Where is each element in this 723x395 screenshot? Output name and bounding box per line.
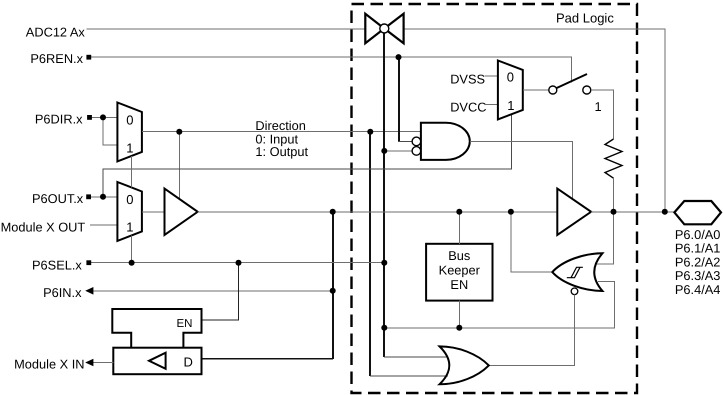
svg-text:EN: EN [450, 277, 468, 292]
wire DVSS input [484, 75, 498, 77]
svg-text:P6.4/A4: P6.4/A4 [675, 282, 721, 297]
OR gate U6 [440, 346, 489, 384]
svg-text:0: 0 [126, 192, 133, 207]
node Direction chain [367, 129, 373, 135]
analog switch control circle [380, 24, 389, 33]
wire switch to resistor [591, 90, 614, 139]
node bus keeper top [456, 209, 462, 215]
svg-text:1: 1 [126, 220, 133, 235]
wire schmitt top input from pad line [597, 212, 614, 264]
node bus keeper bottom [456, 325, 462, 331]
wire OR gate output to schmitt enable [489, 294, 575, 365]
node schmitt output [508, 209, 514, 215]
wire mux select chain below P6OUT mux [131, 235, 133, 262]
node P6OUT branch [100, 194, 106, 200]
wire ADC12 Ax horizontal [87, 28, 366, 30]
input square P6OUT.x [86, 194, 91, 199]
input square P6DIR.x [87, 115, 92, 120]
buffer G2 output driver [557, 189, 591, 235]
node Direction to G1 enable [176, 129, 182, 135]
input square P6SEL.x [86, 260, 91, 265]
wire Module X OUT input [90, 224, 117, 226]
wire P6SEL chain vertical (analog switch control / AND input / OR input) [383, 34, 385, 358]
node ADC drop pad line [662, 209, 668, 215]
wire P6REN to AND bubble input [398, 57, 400, 141]
wire P6SEL.x [91, 262, 384, 264]
resistor R1 [605, 139, 622, 178]
switch contact left [549, 86, 557, 94]
wire mux U4 output to switch [523, 89, 549, 91]
svg-text:EN: EN [177, 318, 193, 330]
mux U4 pull resistor select [498, 61, 523, 120]
wire buffer G1 enable from Direction [178, 132, 180, 199]
buffer G1 output driver stage 1 [165, 189, 198, 235]
wire P6OUT.x input [91, 196, 117, 198]
AND gate U3 [421, 123, 470, 160]
latch clock triangle [149, 353, 166, 369]
wire P6REN.x [91, 57, 572, 82]
svg-text:P6REN.x: P6REN.x [30, 51, 83, 66]
svg-text:1: Output: 1: Output [255, 144, 308, 159]
schmitt OR gate U5 (mirrored) [552, 253, 602, 291]
wire keeper enable line (P6SEL chain to schmitt lower input) [384, 282, 614, 328]
wire ADC12 Ax right segment to pad [404, 29, 665, 212]
switch contact right [583, 86, 591, 94]
wire P6DIR.x input [91, 116, 117, 118]
svg-text:P6IN.x: P6IN.x [43, 285, 82, 300]
mux U1 P6DIR [117, 103, 141, 162]
wire input chain down to P6IN and latch D [332, 212, 334, 359]
wire schmitt output to pad drive line [511, 212, 552, 272]
svg-text:Keeper: Keeper [439, 262, 481, 277]
switch lever [556, 74, 587, 88]
AND bubble input 1 [412, 137, 421, 146]
latch EN box [112, 309, 201, 348]
svg-text:Bus: Bus [448, 248, 470, 263]
wire P6SEL chain to AND bubble 2 [384, 150, 412, 152]
node P6DIR branch [100, 114, 106, 120]
mux U2 P6OUT [117, 182, 141, 241]
svg-text:0: 0 [126, 113, 133, 128]
node P6SEL chain AND tap [381, 148, 387, 154]
wire bus keeper bottom [458, 301, 460, 328]
svg-text:Pad Logic: Pad Logic [556, 11, 614, 26]
svg-text:D: D [184, 355, 193, 370]
wire P6SEL to latch EN [202, 263, 239, 320]
arrow P6IN.x [85, 287, 93, 295]
wire P6IN.x [92, 290, 333, 292]
node pad drive to input chain [330, 209, 336, 215]
AND bubble input 2 [412, 147, 421, 156]
svg-text:P6SEL.x: P6SEL.x [32, 257, 82, 272]
svg-text:DVSS: DVSS [450, 71, 485, 86]
svg-text:P6OUT.x: P6OUT.x [32, 191, 84, 206]
pad hexagon P6.0/A0..P6.4/A4 [674, 201, 721, 224]
wire mux U2 output to buffer G1 [142, 211, 165, 213]
wire Direction (mux U1 output to AND gate) [142, 131, 421, 133]
svg-text:ADC12 Ax: ADC12 Ax [26, 25, 86, 40]
wire pad drive line G1 to G2 [198, 211, 558, 213]
wire P6OUT jog to pull mux select [103, 115, 511, 197]
svg-text:P6DIR.x: P6DIR.x [35, 111, 83, 126]
pad logic dashed border [352, 4, 638, 393]
arrow Module X IN [85, 359, 93, 367]
schmitt hysteresis symbol [567, 267, 583, 277]
wire Direction chain down to OR gate lower input [369, 132, 371, 377]
wire resistor to pad line [613, 178, 615, 212]
node keeper enable tee [381, 325, 387, 331]
svg-text:0: 0 [507, 69, 514, 84]
wire G2 output to pad [591, 211, 674, 213]
input square P6REN.x [86, 55, 91, 60]
node resistor pad line [611, 209, 617, 215]
wire Module X IN [93, 362, 113, 364]
svg-text:DVCC: DVCC [450, 100, 486, 115]
svg-text:1: 1 [507, 98, 514, 113]
wire AND output to buffer G2 enable [470, 141, 573, 198]
svg-text:Module X OUT: Module X OUT [1, 220, 86, 235]
wire bus keeper top [458, 212, 460, 244]
schmitt enable bubble [571, 288, 578, 295]
wire mux select chain P6SEL to both muxes [131, 156, 133, 188]
svg-text:Module X IN: Module X IN [14, 357, 84, 372]
svg-text:1: 1 [595, 99, 602, 114]
latch D box [113, 348, 201, 375]
wire DVCC input [484, 104, 498, 106]
node P6IN tap [330, 288, 336, 294]
node P6SEL chain junction [381, 260, 387, 266]
node P6SEL to EN [236, 260, 242, 266]
analog switch (ADC bowtie) [365, 14, 403, 44]
bus keeper box [426, 244, 492, 301]
node P6REN tap [396, 54, 402, 60]
svg-text:1: 1 [126, 140, 133, 155]
node select on P6SEL [129, 260, 135, 266]
wire P6DIR.x branch to mux 1 input [103, 117, 117, 145]
